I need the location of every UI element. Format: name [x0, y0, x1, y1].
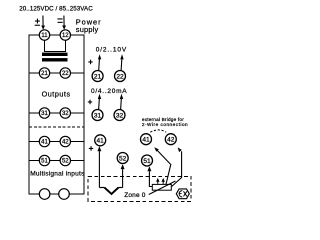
svg-text:31: 31 — [94, 112, 102, 119]
plus sign voltage output — [88, 60, 92, 64]
svg-text:41: 41 — [142, 137, 150, 144]
wire from transmitter to 51 — [147, 166, 152, 186]
thermocouple junction — [99, 188, 122, 195]
terminal 22 — [60, 68, 70, 78]
svg-text:2-Wire connection: 2-Wire connection — [142, 122, 188, 127]
wire row 21-22 — [29, 72, 84, 74]
terminal 51 — [39, 155, 49, 165]
terminal 32 — [60, 108, 70, 118]
plus sign current output — [88, 100, 92, 105]
terminal 52 — [60, 155, 70, 165]
DC polarity symbol — [35, 19, 40, 26]
external bridge arc — [150, 130, 166, 132]
svg-text:21: 21 — [94, 73, 102, 80]
plus sign multisignal input — [89, 146, 93, 151]
svg-text:32: 32 — [116, 112, 124, 119]
device outline — [29, 35, 84, 194]
transformer T1 core bar — [42, 53, 68, 56]
arrow out of terminal 32 — [120, 94, 123, 110]
transformer T1 primary — [45, 40, 66, 51]
terminal 42 — [60, 136, 70, 146]
transmitter box — [152, 184, 171, 190]
arrow out of terminal 31 — [98, 94, 101, 110]
svg-text:41: 41 — [97, 138, 105, 145]
transformer T1 secondary bar — [42, 58, 68, 61]
transmitter internal arrows — [156, 178, 165, 184]
svg-text:51: 51 — [41, 159, 48, 165]
svg-text:Multisignal inputs: Multisignal inputs — [30, 170, 85, 177]
wire from thermocouple to 41 — [97, 146, 101, 187]
terminal 52 multisignal — [117, 153, 128, 164]
svg-text:31: 31 — [41, 111, 48, 117]
svg-text:42: 42 — [62, 140, 69, 146]
arrow out of terminal 21 — [98, 54, 101, 71]
Ex marking — [176, 189, 189, 199]
svg-text:supply: supply — [76, 25, 99, 34]
isolation divider — [29, 126, 84, 128]
terminal 41 multisignal — [95, 135, 106, 146]
zone 0 dashed boundary — [88, 176, 191, 201]
svg-text:11: 11 — [41, 33, 48, 39]
AC symbol — [57, 18, 62, 23]
wire row 31-32 — [29, 112, 84, 114]
terminal 42 transmitter — [165, 134, 176, 145]
supply arrow into terminal 12 — [62, 16, 66, 30]
terminal 31 — [39, 108, 49, 118]
terminal 32 output — [114, 110, 125, 121]
terminal 12 — [60, 30, 70, 40]
svg-text:42: 42 — [167, 137, 175, 144]
terminal 41 — [39, 136, 49, 146]
svg-text:0/2..10V: 0/2..10V — [96, 47, 127, 54]
svg-text:Outputs: Outputs — [42, 89, 71, 98]
svg-text:52: 52 — [62, 159, 69, 165]
wire row 51-52 — [29, 160, 84, 162]
svg-text:32: 32 — [62, 111, 69, 117]
svg-text:51: 51 — [143, 158, 151, 165]
svg-text:0/4..20mA: 0/4..20mA — [91, 88, 127, 95]
svg-text:41: 41 — [41, 140, 48, 146]
wire from thermocouple to 52 — [121, 164, 125, 187]
wire row 41-42 — [29, 141, 84, 143]
terminal 31 output — [92, 110, 103, 121]
sensor terminal left — [39, 189, 50, 200]
terminal 22 output — [115, 71, 126, 82]
terminal 41 transmitter — [141, 134, 152, 145]
terminal 11 — [39, 30, 49, 40]
arrow out of terminal 22 — [120, 54, 123, 71]
terminal 51 transmitter — [142, 155, 153, 166]
svg-text:Zone 0: Zone 0 — [124, 192, 146, 199]
wire from transmitter to 41 — [154, 147, 171, 184]
svg-text:20..125VDC / 85..253VAC: 20..125VDC / 85..253VAC — [19, 5, 93, 12]
terminal 21 — [39, 68, 49, 78]
sensor terminal right — [59, 189, 70, 200]
svg-text:52: 52 — [119, 155, 127, 162]
wire from transmitter to 42 — [172, 147, 182, 186]
svg-text:12: 12 — [62, 33, 69, 39]
svg-text:22: 22 — [116, 73, 124, 80]
transmitter adjustment diagonal — [149, 181, 176, 195]
terminal 21 output — [92, 71, 103, 82]
supply arrow into terminal 11 — [41, 16, 45, 30]
svg-text:22: 22 — [62, 71, 69, 77]
svg-text:21: 21 — [41, 71, 48, 77]
